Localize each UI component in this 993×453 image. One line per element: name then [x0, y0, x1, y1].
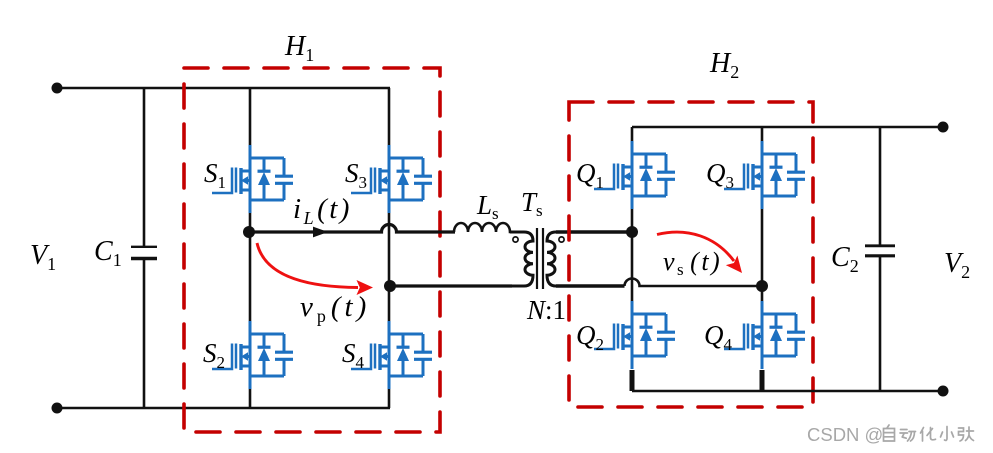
glyph zi [884, 425, 895, 441]
transformer Ts core [537, 228, 543, 289]
wire H1 right leg lower [388, 389, 391, 408]
svg-text:H1: H1 [284, 31, 314, 65]
glyph hua [921, 428, 936, 442]
inductor Ls [454, 223, 522, 232]
node D dot (H2 right midpoint) [756, 280, 768, 292]
svg-text:S4: S4 [342, 338, 365, 372]
svg-text:Q2: Q2 [576, 320, 604, 354]
transistor Q3 [724, 141, 805, 209]
wire H2 right leg lower thick stub [760, 370, 765, 391]
wire H1 right leg middle [388, 213, 391, 321]
watermark CSDN [807, 424, 974, 445]
svg-text:vs(t): vs(t) [663, 247, 722, 279]
capacitor C1 [131, 88, 157, 408]
svg-text:S2: S2 [203, 338, 225, 372]
transistor S1 [212, 145, 293, 213]
svg-text:Ts: Ts [521, 187, 543, 220]
svg-text:Ls: Ls [476, 190, 499, 223]
wire H1 left leg lower [249, 389, 252, 408]
H1 dashed box [184, 68, 440, 432]
arrow iL current [313, 227, 328, 238]
node terminal V1 plus [52, 83, 63, 94]
glyph zhang [959, 427, 974, 441]
svg-text:Q4: Q4 [704, 320, 733, 354]
node terminal V2 plus [938, 122, 949, 133]
wire top-left rail [57, 87, 390, 90]
svg-text:N:1: N:1 [526, 295, 566, 325]
node C dot (H2 left midpoint) [626, 226, 638, 238]
wire top-right rail [632, 126, 943, 129]
wire secondary bottom link with hop [556, 284, 625, 287]
wire H2 left leg middle [631, 209, 634, 301]
transistor S2 [212, 321, 293, 389]
capacitor C2 [865, 127, 895, 391]
svg-text:S3: S3 [345, 158, 367, 192]
arrow vs red curve [657, 232, 742, 273]
H2 dashed box [569, 102, 813, 407]
arrow vp red curve [257, 243, 373, 295]
svg-text:V1: V1 [30, 240, 56, 274]
svg-text:Q3: Q3 [706, 158, 734, 192]
node A dot (H1 left midpoint) [243, 226, 255, 238]
transistor S3 [351, 145, 432, 213]
transistor Q2 [594, 301, 675, 369]
transformer Ts primary winding [510, 232, 533, 286]
svg-text:V2: V2 [944, 248, 970, 282]
glyph dong [900, 430, 916, 442]
transistor S4 [351, 321, 432, 389]
svg-text:S1: S1 [204, 158, 226, 192]
node terminal V1 minus [52, 403, 63, 414]
svg-text:H2: H2 [709, 48, 739, 82]
transistor Q4 [724, 301, 805, 369]
wire H1 right leg upper [388, 88, 391, 145]
wire secondary top link [556, 230, 632, 233]
svg-text:iL(t): iL(t) [293, 193, 352, 228]
wire H2 left leg lower thick stub [630, 370, 635, 391]
wire bottom-right rail [632, 390, 943, 393]
svg-text:C1: C1 [94, 236, 122, 270]
svg-text:Q1: Q1 [576, 158, 604, 192]
wire H1 left leg middle [249, 213, 252, 321]
svg-text:vp(t): vp(t) [300, 291, 370, 326]
transistor Q1 [594, 141, 675, 209]
wire bottom-left rail [57, 407, 390, 410]
node B dot (H1 right midpoint) [384, 280, 396, 292]
node terminal V2 minus [938, 386, 949, 397]
svg-text:CSDN @: CSDN @ [807, 424, 883, 445]
wire H1 left leg upper [249, 88, 252, 145]
wire H2 right leg upper [761, 127, 764, 141]
transformer secondary polarity dot [559, 237, 564, 242]
wire H2 left leg upper [631, 127, 634, 141]
wire primary top link with hop [249, 225, 455, 233]
svg-text:C2: C2 [831, 242, 859, 276]
wire H2 right leg middle [761, 209, 764, 301]
glyph xiao [941, 427, 954, 441]
wire primary bottom link [390, 284, 512, 287]
transformer primary polarity dot [513, 237, 518, 242]
transformer Ts secondary winding [547, 232, 570, 286]
